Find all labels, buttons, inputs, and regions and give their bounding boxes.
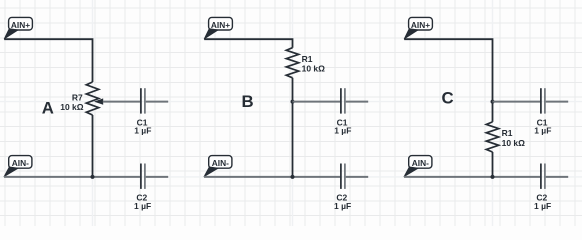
resistor R1 body (circuit C) (486, 122, 498, 152)
junction R1 / C1 branch (circuit B) (291, 100, 295, 104)
wire AIN+ to R1 top (circuit B) (204, 39, 292, 48)
net label AIN- callout box (9, 156, 32, 169)
capacitor C2 left plate (340, 164, 342, 189)
wire branch to C1 (circuit C) (493, 101, 541, 103)
svg-text:10 kΩ: 10 kΩ (502, 138, 526, 148)
svg-text:R7: R7 (72, 93, 83, 103)
capacitor C1 left plate (340, 88, 342, 113)
resistor R7 potentiometer body (86, 82, 98, 115)
net label AIN- callout box (209, 156, 232, 169)
wire C1 right lead (146, 101, 169, 103)
wire C1 right lead (546, 101, 569, 103)
svg-text:AIN+: AIN+ (411, 20, 430, 30)
net label AIN+ callout box (9, 17, 33, 30)
resistor R1 body (circuit B) (286, 48, 298, 78)
net label AIN+ callout box (409, 17, 433, 30)
net label AIN+ callout box (209, 17, 233, 30)
svg-text:1 µF: 1 µF (534, 126, 551, 136)
wire AIN+ to potentiometer top (circuit A) (4, 39, 92, 82)
capacitor C1 right plate (344, 88, 346, 113)
capacitor C1 left plate (140, 88, 142, 113)
svg-text:R1: R1 (502, 128, 513, 138)
wire C2 right lead (146, 176, 169, 178)
wire potentiometer bottom to AIN- (circuit A) (92, 115, 94, 177)
wire AIN+ to branch node (circuit C) (404, 39, 492, 122)
capacitor C2 right plate (544, 164, 546, 189)
svg-text:AIN+: AIN+ (11, 20, 30, 30)
wire wiper to C1 (circuit A) (103, 101, 140, 103)
net label AIN+ callout tail (4, 29, 18, 39)
junction C1 branch (circuit C) (491, 100, 495, 104)
svg-text:10 kΩ: 10 kΩ (60, 102, 84, 112)
svg-text:C: C (441, 89, 453, 108)
net label AIN- callout box (409, 156, 432, 169)
capacitor C2 left plate (140, 164, 142, 189)
junction AIN- / R1 (circuit C) (491, 175, 495, 179)
net label AIN- callout tail (204, 167, 218, 177)
svg-text:AIN-: AIN- (412, 158, 429, 168)
junction AIN- / R7 (circuit A) (91, 175, 95, 179)
svg-text:1 µF: 1 µF (134, 201, 151, 211)
svg-text:AIN-: AIN- (212, 158, 229, 168)
junction AIN- / R1 (circuit B) (291, 175, 295, 179)
svg-text:1 µF: 1 µF (334, 201, 351, 211)
svg-text:B: B (242, 92, 254, 111)
wire R1 bottom to AIN- (circuit B) (292, 78, 294, 177)
capacitor C2 right plate (144, 164, 146, 189)
svg-text:1 µF: 1 µF (334, 126, 351, 136)
net label AIN+ callout tail (204, 29, 218, 39)
net label AIN- callout tail (404, 167, 418, 177)
net label AIN- callout tail (4, 167, 18, 177)
wire C2 right lead (546, 176, 569, 178)
svg-text:R1: R1 (302, 54, 313, 64)
capacitor C2 left plate (540, 164, 542, 189)
svg-text:AIN-: AIN- (12, 158, 29, 168)
resistor R7 wiper arrow (94, 98, 103, 104)
svg-text:1 µF: 1 µF (134, 126, 151, 136)
wire AIN- horizontal (circuit C) (404, 176, 540, 178)
capacitor C1 right plate (144, 88, 146, 113)
wire C2 right lead (346, 176, 369, 178)
wire branch to C1 (circuit B) (293, 101, 341, 103)
svg-text:AIN+: AIN+ (211, 20, 230, 30)
svg-text:1 µF: 1 µF (534, 201, 551, 211)
wire R1 bottom to AIN- (circuit C) (492, 152, 494, 177)
capacitor C1 right plate (544, 88, 546, 113)
svg-text:10 kΩ: 10 kΩ (302, 64, 326, 74)
wire AIN- horizontal (circuit A) (4, 176, 140, 178)
capacitor C2 right plate (344, 164, 346, 189)
svg-text:A: A (42, 98, 54, 117)
wire AIN- horizontal (circuit B) (204, 176, 340, 178)
capacitor C1 left plate (540, 88, 542, 113)
wire C1 right lead (346, 101, 369, 103)
net label AIN+ callout tail (404, 29, 418, 39)
